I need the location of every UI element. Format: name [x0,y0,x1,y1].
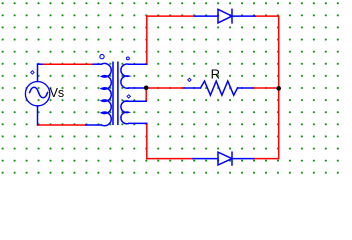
secondary lower bottom lead [129,122,147,124]
wire tap to resistor [146,87,184,89]
source loop left vertical bottom [37,106,39,125]
polarity circle secondary [127,57,130,60]
transformer secondary lower winding [121,101,129,124]
source Vs sine wave [30,87,48,98]
transformer primary coil [101,63,111,125]
source loop left vertical top [37,64,39,81]
diode D2 lead left [193,158,218,160]
secondary upper bottom lead (to tap) [129,87,147,89]
source Vs circle [25,82,49,106]
svg-text:R: R [211,66,220,81]
diode D1 triangle [218,9,232,23]
diode D2 lead right [232,158,254,160]
node right junction dot [276,86,281,91]
node center-tap junction dot [144,86,149,91]
secondary upper top lead [129,63,147,65]
resistor R zigzag [201,81,238,95]
wire bottom rail red right segment [254,158,279,160]
wire resistor to right node [252,87,278,89]
source loop top blue stubs [38,63,43,65]
pin diamond near source [31,71,34,74]
wire source loop bottom red [38,124,85,126]
svg-text:Vs: Vs [50,86,65,100]
wire bottom rail red left segment [147,158,193,160]
wire right vertical [278,16,280,159]
wire left vertical of top loop [146,16,148,64]
transformer secondary upper winding [121,64,129,88]
diode D2 cathode bar [231,152,233,165]
wire center-tap to lower winding [145,88,147,101]
secondary lower top lead [124,100,147,102]
wire top rail red right segment [255,15,279,17]
diode D2 triangle [218,152,232,165]
diode D1 cathode bar [231,9,233,23]
wire lower winding bottom to bottom rail [146,123,148,158]
pin diamond near secondary tap [127,95,130,98]
pin diamond near resistor [188,78,191,81]
source loop bottom blue stub [86,124,102,126]
resistor R lead right [238,87,253,89]
diode D1 lead left [195,15,218,17]
transformer core line 2 [117,62,119,124]
wire top rail red left segment [147,15,195,17]
diode D1 lead right [232,15,255,17]
resistor R lead left [184,87,201,89]
transformer core line 1 [112,62,114,124]
wire source loop top red [42,63,93,65]
polarity circle primary [100,54,104,58]
